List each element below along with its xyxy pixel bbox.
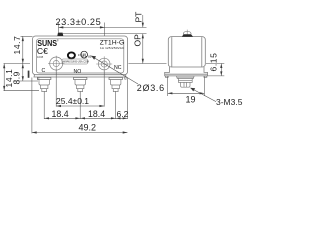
svg-text:23.3±0.25: 23.3±0.25 <box>56 17 102 27</box>
svg-text:14.1: 14.1 <box>4 69 14 88</box>
svg-text:3-M3.5: 3-M3.5 <box>216 97 243 107</box>
svg-text:c: c <box>78 53 80 57</box>
svg-text:PT: PT <box>133 12 143 23</box>
svg-text:19: 19 <box>186 94 196 104</box>
svg-text:us: us <box>88 54 92 58</box>
svg-text:6.2: 6.2 <box>117 109 129 119</box>
svg-text:NO: NO <box>74 69 82 75</box>
svg-text:UL: UL <box>81 52 87 57</box>
svg-text:49.2: 49.2 <box>79 122 97 132</box>
svg-text:NC: NC <box>114 65 122 71</box>
svg-text:1A 125/250VAC: 1A 125/250VAC <box>100 46 125 50</box>
svg-text:WWW.SUNS-USA.COM: WWW.SUNS-USA.COM <box>63 61 89 64</box>
svg-text:18.4: 18.4 <box>52 109 69 119</box>
svg-text:6.15: 6.15 <box>209 53 219 72</box>
svg-text:1008: 1008 <box>37 55 44 59</box>
svg-text:C: C <box>42 68 46 74</box>
svg-text:18.4: 18.4 <box>88 109 105 119</box>
svg-text:OP: OP <box>133 34 143 47</box>
svg-text:14.7: 14.7 <box>12 36 22 55</box>
svg-text:2Ø3.6: 2Ø3.6 <box>137 83 165 93</box>
svg-text:®: ® <box>57 40 59 43</box>
svg-text:25.4±0.1: 25.4±0.1 <box>56 96 89 106</box>
